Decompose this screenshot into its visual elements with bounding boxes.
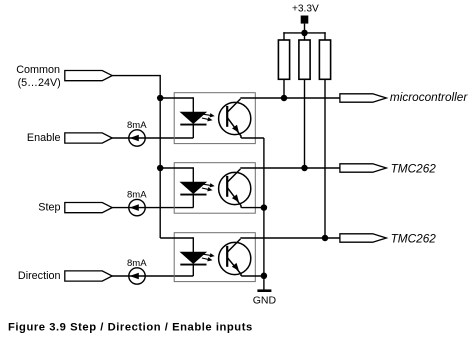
input connector Enable: [65, 133, 112, 143]
phototransistor Q1 (inside O1): [219, 99, 251, 138]
phototransistor Q2 (inside O2): [219, 169, 251, 208]
svg-text:(5…24V): (5…24V): [18, 77, 61, 89]
ground GND symbol: [253, 289, 277, 306]
wire LED cathode vertical (O3): [192, 265, 194, 276]
svg-text:microcontroller: microcontroller: [390, 90, 468, 104]
wire from +3.3V square to resistor top rail: [304, 24, 306, 40]
LED light emission arrows (O2): [202, 183, 215, 191]
wire common bus vertical: [159, 75, 161, 238]
+3.3V supply terminal square: [301, 16, 309, 24]
wire LED cathode vertical (O1): [192, 125, 194, 138]
svg-text:Figure 3.9 Step / Direction /: Figure 3.9 Step / Direction / Enable inp…: [8, 321, 253, 333]
optocoupler O1 box: [174, 93, 255, 144]
wire Common to bus: [111, 75, 160, 77]
wire stub rail to resistor R3: [324, 32, 326, 40]
wire opto O2 collector to output line: [240, 167, 340, 169]
LED D3 (inside O3): [180, 252, 206, 265]
wire opto O1 collector to output line: [240, 97, 340, 99]
resistor R3: [319, 40, 330, 79]
LED light emission arrows (O3): [202, 253, 215, 261]
svg-text:Direction: Direction: [18, 270, 61, 282]
input connector Common: [65, 71, 112, 81]
wire opto O3 collector to output line: [240, 237, 340, 239]
output connector TMC262 (ch3): [340, 234, 386, 242]
svg-text:+3.3V: +3.3V: [292, 4, 319, 15]
node junction bus / opto O2 anode: [157, 165, 164, 172]
wire resistor R3 bottom to TMC262 line 2: [324, 79, 326, 238]
svg-text:Enable: Enable: [27, 132, 61, 144]
resistor R2: [299, 40, 310, 79]
node junction +3.3V rail: [301, 30, 308, 37]
svg-text:Common: Common: [16, 64, 60, 76]
svg-text:Step: Step: [38, 202, 60, 214]
node junction bus / opto O1 anode: [157, 95, 164, 102]
wire LED anode vertical (O3): [192, 237, 194, 252]
optocoupler O3 box: [174, 233, 255, 282]
svg-text:8mA: 8mA: [127, 258, 147, 269]
wire opto O2 emitter to ground bus: [241, 207, 264, 209]
svg-text:TMC262: TMC262: [391, 231, 437, 245]
resistor top rail wire: [283, 32, 325, 34]
node junction R2 / TMC262 line 1: [301, 165, 308, 172]
wire emitter ground bus vertical: [263, 138, 265, 291]
current source CS3 8mA: [129, 268, 145, 284]
output connector TMC262 (ch2): [340, 164, 386, 172]
wire LED anode vertical (O1): [192, 97, 194, 112]
svg-text:TMC262: TMC262: [391, 161, 437, 175]
output connector microcontroller (ch1): [340, 94, 386, 102]
wire opto O1 emitter to ground bus: [241, 137, 264, 139]
wire stub rail to resistor R1: [283, 32, 285, 40]
LED light emission arrows (O1): [202, 113, 215, 121]
wire Step input to opto O2 LED cathode: [111, 207, 193, 209]
node junction emitter bus / opto O2 emitter: [261, 204, 268, 211]
wire bus to opto O3 LED anode: [160, 237, 193, 239]
wire resistor R2 bottom to TMC262 line 1: [304, 79, 306, 168]
wire LED cathode vertical (O2): [192, 195, 194, 207]
wire Enable input to opto O1 LED cathode: [111, 137, 193, 139]
current source CS2 8mA: [129, 199, 145, 215]
wire Direction input to opto O3 LED cathode: [111, 275, 193, 277]
input connector Direction: [65, 271, 112, 281]
wire LED anode vertical (O2): [192, 167, 194, 182]
node junction emitter bus / opto O3 emitter: [261, 273, 268, 280]
resistor R1: [278, 40, 289, 79]
optocoupler O2 box: [174, 163, 255, 214]
svg-text:8mA: 8mA: [127, 120, 147, 131]
wire opto O3 emitter to ground bus: [241, 275, 264, 277]
current source CS1 8mA: [129, 130, 145, 146]
wire resistor R1 bottom to microcontroller line: [283, 79, 285, 98]
input connector Step: [65, 203, 112, 213]
svg-text:8mA: 8mA: [127, 189, 147, 200]
wire bus to opto O2 LED anode: [160, 167, 193, 169]
node junction R1 / microcontroller line: [281, 95, 288, 102]
svg-text:GND: GND: [253, 295, 277, 307]
node junction R3 / TMC262 line 2: [322, 235, 329, 242]
phototransistor Q3 (inside O3): [219, 239, 251, 276]
wire bus to opto O1 LED anode: [160, 97, 193, 99]
LED D2 (inside O2): [180, 182, 206, 195]
LED D1 (inside O1): [180, 112, 206, 125]
